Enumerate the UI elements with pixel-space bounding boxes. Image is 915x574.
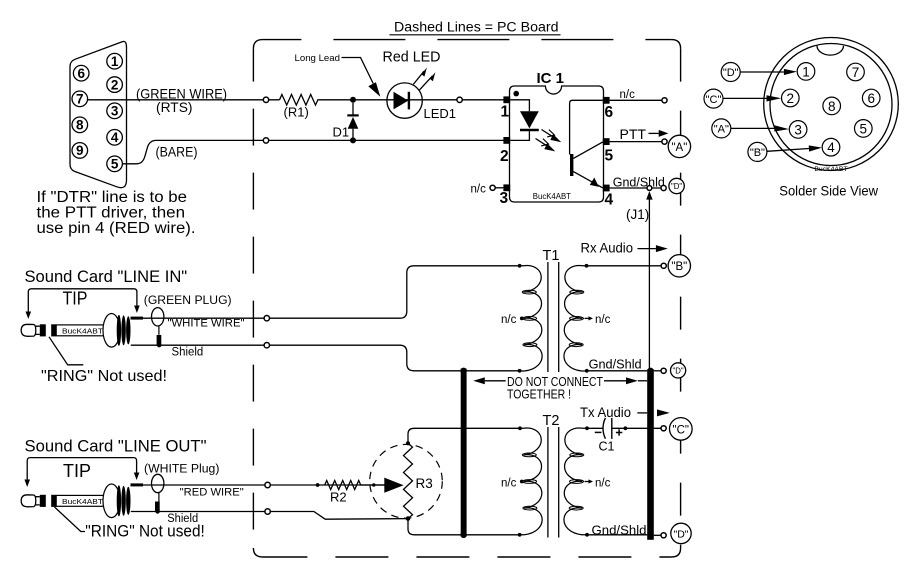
- node LINE IN tip terminal: [264, 316, 269, 321]
- node dot T2 secondary bottom: [585, 533, 589, 537]
- svg-text:6: 6: [867, 91, 875, 106]
- plug LINE OUT collar: [103, 484, 120, 518]
- svg-text:1: 1: [501, 104, 510, 121]
- node RTS terminal: [263, 97, 268, 102]
- wire T2 secondary bottom to bus: [587, 534, 647, 536]
- svg-text:"B": "B": [671, 261, 687, 273]
- node BARE terminal: [263, 138, 268, 143]
- DB9 pin 2: [107, 77, 123, 93]
- arrow C to pin 2: [723, 95, 781, 101]
- shield tab line out: [155, 502, 160, 512]
- node label "A" din: [712, 119, 731, 138]
- plug LINE IN tip: [21, 324, 40, 336]
- node n/c terminal pin6: [662, 98, 667, 103]
- svg-text:1: 1: [111, 54, 119, 69]
- wire BARE from pin 5: [122, 140, 504, 163]
- svg-text:n/c: n/c: [620, 89, 636, 101]
- leader RING line out: [55, 507, 86, 532]
- DIN8 pin 5: [855, 120, 873, 138]
- IC1 phototransistor collector: [573, 142, 602, 159]
- arrow do-not-connect right: [604, 377, 647, 384]
- potentiometer R3 wiper lead: [374, 484, 385, 486]
- node "D" small mid: [671, 363, 686, 378]
- svg-text:R3: R3: [416, 476, 433, 491]
- plug LINE OUT tip: [21, 495, 40, 507]
- DIN8 pin 2: [782, 89, 800, 107]
- svg-text:Gnd/Shld: Gnd/Shld: [592, 522, 647, 537]
- arrow D to pin 1: [740, 69, 797, 75]
- svg-text:(R1): (R1): [284, 105, 309, 120]
- wire IC pin 5 to A: [610, 141, 662, 143]
- wire C1 to C terminal: [612, 427, 661, 429]
- svg-text:4: 4: [111, 130, 119, 145]
- plug LINE IN band 1: [40, 324, 46, 336]
- svg-text:"RING" Not used!: "RING" Not used!: [85, 523, 205, 541]
- svg-text:Shield: Shield: [172, 347, 204, 359]
- arrow A to pin 3: [731, 125, 789, 131]
- wire IC pin 4 to D: [610, 187, 662, 189]
- svg-text:(GREEN PLUG): (GREEN PLUG): [144, 295, 232, 307]
- transformer T2 core: [548, 427, 559, 538]
- node junction bus right top: [647, 368, 653, 374]
- plug LINE OUT stub thick wire: [131, 483, 144, 486]
- DB9 pin 5: [107, 156, 123, 172]
- node shield junction line out: [155, 509, 159, 513]
- LED light arrow 2: [420, 72, 436, 90]
- svg-text:3: 3: [794, 122, 802, 137]
- LED LED1: [387, 83, 422, 118]
- wire shield line out: [131, 512, 408, 520]
- node LINE OUT tip terminal: [265, 482, 270, 487]
- svg-text:5: 5: [860, 121, 868, 136]
- svg-text:Red LED: Red LED: [383, 50, 441, 66]
- wire bus to D bottom terminal: [654, 534, 661, 536]
- svg-text:2: 2: [500, 148, 509, 165]
- node junction bus right bottom: [647, 532, 653, 538]
- DIN8 pin 1: [797, 63, 815, 81]
- svg-text:(BARE): (BARE): [156, 144, 198, 160]
- label C1 plus: [616, 429, 622, 435]
- svg-text:5: 5: [111, 157, 119, 172]
- node dot T1 primary top: [518, 264, 522, 268]
- node terminal D bottom: [661, 533, 666, 538]
- svg-text:n/c: n/c: [501, 477, 517, 489]
- op-to-coupler IC1 body: [510, 86, 604, 202]
- node R3 bottom junction: [406, 516, 411, 521]
- IC1 pin 1 pad: [503, 96, 510, 103]
- svg-text:9: 9: [76, 143, 84, 158]
- green plug mini icon: [152, 308, 164, 335]
- svg-text:use pin 4 (RED wire).: use pin 4 (RED wire).: [37, 220, 196, 237]
- node "D" small upper: [669, 178, 684, 193]
- node J1 junction: [647, 186, 652, 191]
- IC1 pin 2 pad: [503, 137, 510, 144]
- svg-text:IC 1: IC 1: [537, 70, 565, 87]
- T2 secondary center tap n/c: [585, 477, 611, 489]
- svg-text:"D": "D": [723, 67, 739, 79]
- plug LINE OUT band 1: [40, 495, 46, 507]
- svg-text:(J1): (J1): [626, 207, 649, 222]
- svg-text:Sound Card "LINE IN": Sound Card "LINE IN": [25, 267, 188, 286]
- IC1 light arrow 1: [542, 130, 562, 143]
- LED light arrow 1: [413, 68, 427, 85]
- svg-text:TOGETHER !: TOGETHER !: [507, 387, 571, 401]
- plug LINE IN stub thick wire: [131, 317, 144, 320]
- node dot after C1: [624, 426, 628, 430]
- leader RING line in: [49, 337, 83, 365]
- PC board dashed outline: [253, 40, 680, 557]
- svg-text:Gnd/Shld: Gnd/Shld: [613, 174, 665, 189]
- node shield junction line in: [157, 343, 161, 347]
- plug LINE IN barrel: [56, 325, 111, 336]
- svg-text:Dashed Lines = PC Board: Dashed Lines = PC Board: [394, 20, 559, 35]
- IC1 phototransistor base lead from pin 6: [570, 100, 603, 154]
- node terminal pin4: [661, 185, 666, 190]
- T2 secondary winding: [564, 428, 587, 535]
- svg-text:1: 1: [802, 64, 810, 79]
- node "D" bottom: [671, 523, 691, 543]
- svg-text:4: 4: [605, 192, 614, 209]
- plug LINE OUT rings: [117, 485, 131, 516]
- svg-text:5: 5: [605, 147, 614, 164]
- leader arrow Long Lead: [342, 58, 381, 97]
- svg-text:BucK4ABT: BucK4ABT: [533, 192, 571, 201]
- node junction bus left top: [460, 368, 466, 374]
- IC1 pin 4 pad: [603, 185, 610, 192]
- svg-text:Sound Card "LINE OUT": Sound Card "LINE OUT": [25, 437, 207, 456]
- IC1 internal LED: [510, 100, 539, 141]
- svg-text:"D": "D": [673, 366, 684, 375]
- svg-text:(WHITE Plug): (WHITE Plug): [144, 464, 220, 476]
- IC1 pin 6 pad: [603, 97, 610, 104]
- plug LINE IN band 2: [51, 324, 56, 336]
- DB9 pin 1: [107, 53, 123, 69]
- label: Dashed Lines = PC Board: [394, 20, 559, 35]
- node LINE IN shield terminal: [264, 343, 269, 348]
- svg-text:"RING" Not used!: "RING" Not used!: [41, 368, 167, 385]
- svg-text:2: 2: [787, 91, 795, 106]
- arrow B to pin 4: [767, 145, 822, 151]
- node terminal pin5: [662, 139, 667, 144]
- IC1 pin 3 pad: [503, 184, 510, 191]
- svg-text:Long Lead: Long Lead: [295, 53, 341, 64]
- svg-text:T1: T1: [543, 248, 560, 264]
- svg-text:BucK4ABT: BucK4ABT: [814, 166, 847, 173]
- svg-text:the PTT driver, then: the PTT driver, then: [37, 205, 186, 222]
- svg-text:3: 3: [111, 104, 119, 119]
- plug LINE IN collar: [103, 314, 120, 348]
- DB9 pin 3: [107, 103, 123, 119]
- IC1 light arrow 2: [536, 139, 556, 152]
- node terminal C: [661, 426, 666, 431]
- DIN8 pin 6: [862, 89, 880, 107]
- svg-text:n/c: n/c: [595, 477, 611, 489]
- svg-text:3: 3: [500, 190, 509, 207]
- svg-text:PTT: PTT: [620, 126, 647, 142]
- svg-text:Solder Side View: Solder Side View: [779, 184, 878, 199]
- svg-text:"A": "A": [671, 142, 687, 154]
- DIN8 pin 8: [823, 97, 841, 115]
- bracket TIP line in: [26, 289, 140, 319]
- node dot T1 primary bottom: [518, 369, 522, 373]
- transformer T1 core: [548, 262, 559, 372]
- svg-text:BucK4ABT: BucK4ABT: [62, 497, 103, 506]
- white plug mini icon: [152, 474, 164, 501]
- wire T1 secondary bottom to bus: [587, 370, 647, 372]
- ground bus bar left: [461, 369, 467, 537]
- resistor R2: [325, 481, 374, 490]
- arrow Rx Audio: [638, 245, 668, 252]
- svg-text:T2: T2: [543, 413, 560, 429]
- node terminal B: [661, 263, 666, 268]
- node terminal D mid: [661, 368, 666, 373]
- resistor R3 element: [404, 443, 413, 518]
- svg-text:(RTS): (RTS): [156, 99, 193, 115]
- wire T1 secondary top to B: [587, 265, 661, 267]
- DB9 pin 6: [73, 65, 89, 81]
- svg-text:Rx Audio: Rx Audio: [581, 241, 634, 256]
- svg-text:If "DTR" line is to be: If "DTR" line is to be: [37, 189, 188, 206]
- svg-text:TIP: TIP: [63, 289, 88, 309]
- IC1 phototransistor base bar: [570, 154, 573, 176]
- DB9 pin 9: [72, 143, 88, 159]
- node junction D1 bottom: [350, 137, 356, 143]
- svg-text:R2: R2: [330, 490, 347, 505]
- svg-text:n/c: n/c: [501, 314, 517, 326]
- node label "B" din: [748, 142, 767, 161]
- bracket TIP line out: [24, 458, 139, 487]
- node LINE OUT shield terminal: [265, 509, 270, 514]
- svg-text:C1: C1: [599, 440, 615, 454]
- ground bus bar right: [647, 369, 654, 540]
- svg-text:7: 7: [852, 65, 860, 80]
- node dot T1 sec top: [585, 264, 589, 268]
- connector DIN8 inner shell: [770, 44, 892, 166]
- T2 primary center tap n/c: [501, 477, 524, 489]
- wire bus to D terminal: [654, 370, 661, 372]
- plug LINE OUT band 2: [51, 495, 56, 507]
- node dot T2 primary bottom: [518, 533, 522, 537]
- resistor R1: [280, 95, 505, 106]
- IC1 pin 5 pad: [603, 138, 610, 145]
- wire R3 top to T2: [408, 428, 521, 443]
- T2 primary winding: [519, 428, 542, 535]
- shield tab line in: [157, 335, 162, 345]
- wire LINE IN loop bottom: [131, 345, 520, 371]
- connector DB9 body: [70, 41, 127, 187]
- arrow Tx Audio: [637, 409, 670, 416]
- wire IC pin 6 n/c: [610, 99, 662, 101]
- svg-text:8: 8: [76, 118, 84, 133]
- node dot T1 secondary bottom: [585, 369, 589, 373]
- arrow PTT: [649, 130, 669, 137]
- DIN8 pin 3: [789, 121, 807, 139]
- node "B": [668, 255, 690, 277]
- svg-text:BucK4ABT: BucK4ABT: [62, 326, 103, 335]
- svg-text:"D": "D": [671, 182, 682, 191]
- svg-text:TIP: TIP: [63, 461, 91, 481]
- node "C": [670, 418, 693, 441]
- svg-text:"A": "A": [714, 124, 729, 136]
- svg-text:"C": "C": [706, 94, 722, 106]
- svg-text:4: 4: [827, 140, 835, 155]
- wire R3 bottom to T2: [408, 519, 519, 535]
- node label "D" din: [721, 63, 740, 82]
- svg-text:"WHITE WIRE": "WHITE WIRE": [168, 317, 245, 329]
- wire LINE IN loop top: [131, 266, 520, 318]
- svg-text:Gnd/Shld: Gnd/Shld: [589, 356, 642, 371]
- svg-text:6: 6: [605, 104, 614, 121]
- label C1 minus: [595, 431, 602, 433]
- connector DIN8 outer shell: [764, 38, 899, 171]
- node dot T2 secondary top: [585, 426, 589, 430]
- note DTR text: [37, 189, 196, 237]
- wire RTS from pin 7: [88, 99, 280, 101]
- arrow do-not-connect left: [473, 377, 506, 384]
- potentiometer R3 dashed circle: [370, 444, 443, 518]
- svg-text:2: 2: [111, 77, 119, 92]
- potentiometer R3 wiper arrow: [384, 478, 403, 493]
- node junction R2 left: [316, 483, 320, 487]
- svg-text:8: 8: [828, 99, 836, 114]
- svg-text:Tx Audio: Tx Audio: [580, 405, 631, 420]
- node junction wiper: [372, 483, 375, 486]
- IC1 pin1 marker dot: [513, 91, 519, 97]
- node dot T2 primary top: [518, 426, 522, 430]
- svg-text:7: 7: [76, 92, 84, 107]
- svg-text:"D": "D": [673, 528, 688, 540]
- svg-text:n/c: n/c: [595, 314, 611, 326]
- node junction D1 top: [350, 97, 356, 103]
- node n/c at IC pin 3: [471, 184, 504, 196]
- node label "C" din: [704, 89, 723, 108]
- plug LINE IN rings: [117, 315, 131, 346]
- wire T2 secondary top to C1: [587, 427, 603, 429]
- plug LINE OUT barrel: [56, 495, 111, 506]
- node "A": [668, 135, 690, 157]
- DB9 pin 8: [72, 117, 88, 133]
- node junction bus left bottom: [460, 532, 466, 538]
- diode D1: [347, 103, 358, 141]
- DB9 pin 4: [107, 130, 123, 146]
- DIN8 pin 7: [847, 63, 865, 81]
- wire RED top line out: [131, 484, 400, 486]
- T1 primary winding: [519, 266, 542, 371]
- node LED terminal: [457, 97, 462, 102]
- wire J1 vertical with up arrow: [646, 191, 652, 369]
- node R3 top junction: [406, 441, 410, 445]
- capacitor C1 negative plate: [603, 418, 605, 439]
- DB9 pin 7: [72, 91, 88, 107]
- T1 secondary center tap n/c: [585, 314, 611, 326]
- T1 secondary winding: [564, 266, 587, 371]
- svg-text:LED1: LED1: [424, 106, 457, 121]
- svg-text:"RED WIRE": "RED WIRE": [180, 487, 244, 499]
- svg-text:n/c: n/c: [471, 184, 487, 196]
- T1 primary center tap n/c: [501, 314, 524, 326]
- IC1 phototransistor emitter with arrow: [573, 172, 602, 188]
- DIN8 pin 4: [822, 138, 840, 156]
- DIN8 notch: [817, 46, 844, 55]
- svg-text:"B": "B": [750, 147, 765, 159]
- svg-text:"C": "C": [673, 424, 689, 436]
- svg-text:D1: D1: [333, 125, 350, 140]
- capacitor C1 positive plate: [611, 418, 613, 439]
- svg-text:6: 6: [77, 66, 85, 81]
